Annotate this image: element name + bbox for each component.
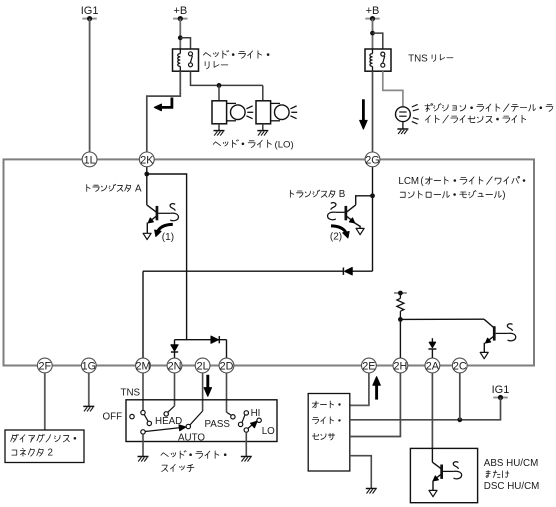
wire HI-LO to ground bbox=[245, 432, 247, 456]
arm LO with arrow bbox=[248, 421, 257, 428]
wire +B down TNS bbox=[372, 19, 374, 49]
diode D4 (points down to 2A) bbox=[428, 338, 436, 358]
ground position lamp bbox=[397, 122, 408, 134]
svg-text:(LO): (LO) bbox=[275, 139, 294, 150]
diode D3 (points right to 2D) bbox=[211, 336, 219, 343]
svg-text:1G: 1G bbox=[82, 360, 96, 372]
label headlights LO bbox=[213, 139, 293, 150]
label HI bbox=[251, 408, 261, 419]
contact HEAD bbox=[164, 412, 168, 416]
LCM module box bbox=[4, 159, 535, 365]
wire horizontal above 2N-2D bbox=[175, 340, 227, 358]
junction 2G internal bbox=[370, 193, 375, 198]
relay coil bbox=[178, 50, 181, 71]
transistor B bbox=[328, 203, 365, 235]
ground sensor bbox=[366, 489, 377, 494]
contact mid bbox=[238, 422, 242, 426]
contact PASS bbox=[231, 415, 235, 419]
wire 2K internal bbox=[146, 167, 148, 205]
svg-text:LO: LO bbox=[262, 426, 275, 437]
wire 2M riser bbox=[142, 271, 144, 358]
wire 2L down bbox=[190, 373, 203, 425]
junction lamp1 bbox=[217, 83, 222, 88]
diode D1 (points left) bbox=[343, 268, 352, 275]
junction below resistor bbox=[398, 317, 403, 322]
label TNS relay bbox=[408, 54, 453, 65]
label LO bbox=[262, 426, 275, 437]
wire above 1L bbox=[0, 0, 1, 1]
selector arm with arrow bbox=[145, 425, 186, 432]
flow arrow up (2E) bbox=[373, 377, 380, 400]
svg-text:ABS HU/CM: ABS HU/CM bbox=[484, 458, 538, 469]
node tick above resistor bbox=[394, 291, 407, 296]
ground lamp2 bbox=[257, 124, 268, 136]
switching arrow (2) bbox=[331, 226, 349, 238]
label HEAD bbox=[155, 416, 182, 427]
svg-text:+B: +B bbox=[173, 5, 187, 17]
svg-text:LCM: LCM bbox=[398, 176, 419, 187]
wire to lamp1 bbox=[218, 85, 220, 100]
wire 2F down bbox=[44, 373, 46, 430]
svg-text:2F: 2F bbox=[38, 360, 51, 372]
svg-text:IG1: IG1 bbox=[492, 384, 510, 396]
svg-text:B: B bbox=[339, 189, 346, 200]
svg-text:OFF: OFF bbox=[103, 412, 123, 423]
svg-text:2H: 2H bbox=[393, 360, 407, 372]
label diagnosis connector bbox=[11, 434, 76, 458]
svg-text:2M: 2M bbox=[136, 360, 151, 372]
svg-text:2A: 2A bbox=[426, 360, 440, 372]
junction 2C bbox=[457, 417, 462, 422]
wire TNS contact to position lamp bbox=[383, 71, 403, 107]
svg-text:(1): (1) bbox=[162, 232, 174, 243]
flow arrow down (TNS) bbox=[360, 99, 367, 129]
label headlight relay bbox=[203, 50, 269, 68]
switching arrow (1) bbox=[155, 224, 173, 236]
flow arrow (bold L, points left) bbox=[154, 98, 172, 111]
wire 2A down bbox=[431, 373, 433, 462]
terminals bottom row bbox=[37, 358, 467, 373]
label (1) bbox=[162, 232, 174, 243]
wire branch right of 2K bbox=[147, 174, 187, 340]
svg-text:2G: 2G bbox=[365, 154, 379, 166]
node IG1 (bottom) bbox=[492, 384, 510, 400]
svg-text:2E: 2E bbox=[362, 360, 375, 372]
wire branch to relay contact bbox=[180, 38, 190, 49]
label position lights bbox=[425, 104, 553, 123]
sensor ground wire bbox=[350, 456, 372, 489]
wire horizontal with diode bbox=[143, 270, 373, 272]
ground 1G bbox=[83, 406, 94, 411]
svg-text:HI: HI bbox=[251, 408, 261, 419]
svg-text:TNS: TNS bbox=[121, 387, 141, 398]
svg-text:IG1: IG1 bbox=[81, 5, 99, 17]
wire 2A inside ABS bbox=[432, 448, 441, 468]
wire 2N down bbox=[168, 373, 175, 413]
node IG1 (top) bbox=[81, 5, 99, 21]
ground lamp1 bbox=[214, 124, 225, 136]
ground switch left bbox=[138, 457, 149, 462]
junction 2K bbox=[144, 172, 149, 177]
svg-text:2K: 2K bbox=[140, 154, 154, 166]
svg-text:(2): (2) bbox=[330, 232, 342, 243]
wire 2C down bbox=[459, 373, 461, 420]
node +B (TNS relay) bbox=[365, 5, 379, 21]
transistor A bbox=[143, 204, 178, 240]
svg-text:2C: 2C bbox=[453, 360, 467, 372]
svg-text:2: 2 bbox=[48, 448, 53, 459]
wire TNS coil to 2G bbox=[372, 71, 374, 152]
headlight lamp 2 (LO) bbox=[256, 101, 297, 124]
relay box headlight bbox=[173, 49, 199, 71]
TNS relay coil bbox=[370, 50, 373, 71]
svg-text:+B: +B bbox=[366, 5, 380, 17]
contact AUTO bbox=[186, 424, 190, 428]
label OFF bbox=[103, 412, 123, 423]
diagnosis connector box bbox=[5, 430, 84, 463]
wire coil to 2K bbox=[147, 71, 181, 152]
transistor Q4 (ABS) bbox=[429, 462, 462, 497]
wire 2E down bbox=[350, 373, 369, 406]
svg-text:TNS: TNS bbox=[408, 54, 428, 65]
contact LO bbox=[257, 418, 261, 422]
svg-text:DSC HU/CM: DSC HU/CM bbox=[484, 481, 540, 492]
wire 2H down bbox=[350, 373, 401, 437]
contact TNS arm end bbox=[147, 421, 151, 425]
ABS box bbox=[410, 448, 477, 502]
label ABS bbox=[484, 458, 540, 492]
diode D2 (points down to 2N) bbox=[171, 345, 178, 358]
wire +B down bbox=[179, 19, 181, 49]
wire relay contact to lamps bbox=[191, 71, 263, 85]
label transistor A bbox=[87, 183, 142, 194]
wire to transistor Q3 bbox=[400, 319, 493, 327]
auto light sensor box bbox=[308, 394, 350, 472]
contact OFF bbox=[130, 414, 134, 418]
headlight lamp 1 (LO) bbox=[212, 101, 253, 124]
resistor R1 bbox=[397, 293, 404, 319]
TNS relay contact bbox=[381, 52, 385, 67]
wire IG1 to 1L bbox=[89, 19, 91, 153]
wire to transistor B bbox=[356, 196, 373, 205]
contact LO bottom bbox=[244, 428, 248, 432]
svg-text:PASS: PASS bbox=[205, 419, 231, 430]
svg-text:AUTO: AUTO bbox=[178, 432, 205, 443]
label (2) bbox=[330, 232, 342, 243]
position lamp bbox=[396, 104, 419, 124]
label auto light sensor bbox=[312, 401, 340, 440]
pivot contact bbox=[141, 430, 145, 434]
wire pivot to ground bbox=[142, 434, 144, 456]
wire 2G internal bbox=[372, 167, 374, 271]
label AUTO bbox=[178, 432, 205, 443]
transistor Q3 bbox=[480, 324, 516, 359]
ground switch right bbox=[241, 457, 252, 462]
contact HI bbox=[244, 411, 248, 415]
wire 1G down bbox=[88, 373, 90, 406]
wire 2D down bbox=[227, 373, 232, 415]
label TNS bbox=[121, 387, 141, 398]
arm TNS bbox=[144, 414, 148, 421]
label PASS bbox=[205, 419, 231, 430]
svg-text:): ) bbox=[502, 190, 505, 201]
wire resistor to 2H bbox=[399, 319, 401, 358]
svg-text:1L: 1L bbox=[84, 154, 96, 166]
node +B (headlight relay) bbox=[173, 5, 187, 21]
svg-text:2L: 2L bbox=[197, 360, 209, 372]
svg-text:2D: 2D bbox=[220, 360, 234, 372]
contact 2M bbox=[141, 410, 145, 414]
junction bbox=[178, 35, 183, 40]
svg-text:A: A bbox=[135, 183, 142, 194]
arm HI bbox=[242, 415, 245, 423]
headlight switch box bbox=[126, 400, 277, 442]
relay box TNS bbox=[365, 49, 391, 71]
wire IG1 bottom run bbox=[350, 398, 501, 420]
wire branch to TNS contact bbox=[373, 33, 383, 49]
terminals 1L 2K 2G bbox=[82, 152, 380, 167]
junction TNS bbox=[370, 31, 375, 36]
svg-text:2N: 2N bbox=[168, 360, 182, 372]
wire 2M down bbox=[142, 373, 144, 411]
label transistor B bbox=[290, 189, 345, 200]
svg-text:HEAD: HEAD bbox=[155, 416, 182, 427]
label headlight switch bbox=[161, 451, 226, 472]
wire to lamp2 bbox=[262, 85, 264, 100]
flow arrow down (2L) bbox=[204, 375, 211, 396]
relay contact bbox=[189, 52, 193, 67]
label LCM bbox=[398, 176, 525, 201]
